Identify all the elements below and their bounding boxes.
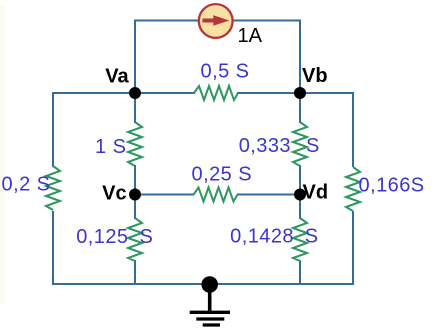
node D dot (Vd): [294, 189, 306, 201]
wire R(0,125S) to bottom: [134, 260, 136, 285]
wire left branch upper: [52, 92, 54, 167]
node C dot (Vc): [129, 189, 141, 201]
svg-text:0,25 S: 0,25 S: [192, 164, 253, 186]
wire R(0,25S) to Vd: [237, 194, 300, 196]
ground junction dot: [201, 276, 218, 293]
svg-text:0,1428: 0,1428: [230, 226, 294, 248]
node B dot (Vb): [294, 87, 306, 99]
wire top-left horizontal: [53, 92, 135, 94]
ground symbol: [190, 285, 230, 326]
wire Vb to top-right corner: [300, 92, 353, 94]
svg-text:Vb: Vb: [302, 65, 328, 87]
svg-text:S: S: [305, 226, 319, 248]
wire Va to R(0,5S): [135, 92, 195, 94]
wire right branch lower: [352, 211, 354, 285]
wire Vc to R(0,25S): [135, 194, 194, 196]
wire Vd down to R(0,1428S): [299, 195, 301, 220]
wire R(1S) to Vc: [134, 165, 136, 195]
svg-text:Vc: Vc: [102, 183, 126, 205]
svg-text:0,5 S: 0,5 S: [201, 61, 250, 83]
svg-text:0,2 S: 0,2 S: [2, 174, 51, 196]
svg-text:S: S: [306, 135, 320, 157]
wire R(0,333S) to Vd: [299, 165, 301, 195]
svg-text:Vd: Vd: [303, 182, 329, 204]
resistor 0,166S zigzag: [346, 167, 360, 211]
svg-text:Va: Va: [105, 66, 129, 88]
resistor 1 S zigzag: [128, 122, 142, 166]
svg-text:0,166S: 0,166S: [359, 175, 425, 197]
wire R(0,5S) to Vb: [237, 92, 300, 94]
wire left branch lower: [52, 211, 54, 285]
wire Vb down to R(0,333S): [299, 93, 301, 123]
svg-text:0,333: 0,333: [239, 135, 291, 157]
resistor 0,25 S zigzag: [194, 188, 238, 202]
wire Vc down to R(0,125S): [134, 195, 136, 220]
resistor 0,125 S zigzag: [128, 218, 142, 261]
wire R(0,1428S) to bottom: [299, 260, 301, 285]
svg-text:1A: 1A: [238, 25, 263, 47]
wire Va down to R(1S): [134, 93, 136, 123]
resistor 0,1428 S zigzag: [293, 218, 307, 261]
resistor 0,333 S zigzag: [293, 122, 307, 166]
svg-text:S: S: [140, 226, 154, 248]
svg-text:1 S: 1 S: [95, 136, 126, 158]
wire top loop left (Va up to source): [135, 21, 198, 94]
resistor 0,2 S zigzag: [46, 166, 60, 210]
node A dot (Va): [129, 87, 141, 99]
resistor 0,5 S zigzag: [194, 86, 238, 100]
current source I1 1A: [199, 4, 233, 38]
wire bottom rail: [53, 283, 353, 285]
wire right branch upper: [352, 92, 354, 167]
wire top loop right (source to Vb): [233, 21, 300, 94]
svg-text:0,125: 0,125: [76, 226, 128, 248]
